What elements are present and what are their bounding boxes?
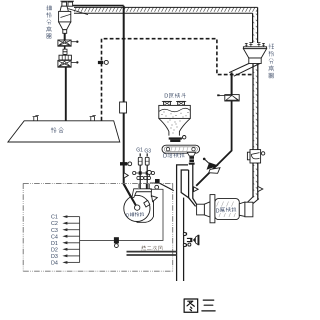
burner arrow D1 xyxy=(67,242,80,244)
svg-text:G3: G3 xyxy=(144,148,151,154)
actuator circle below junction xyxy=(155,185,159,189)
svg-text:C2: C2 xyxy=(51,221,58,227)
svg-text:D: D xyxy=(164,94,168,100)
svg-text:D4: D4 xyxy=(51,261,58,267)
fan hub xyxy=(135,205,140,210)
pipe: cyclone outlet down-pipe to exhauster fan xyxy=(124,6,137,208)
burner arrow D4 xyxy=(67,261,80,263)
burner arrow D3 xyxy=(67,255,80,257)
G3 valve assembly xyxy=(145,153,149,188)
burner arrow C4 xyxy=(67,235,80,237)
svg-text:D3: D3 xyxy=(51,254,58,260)
wire: sampling line loop xyxy=(80,189,163,240)
junction damper black box xyxy=(150,182,155,184)
svg-text:D2: D2 xyxy=(51,247,58,253)
bunker top fitting 2 xyxy=(90,115,96,120)
flag fitting on exhauster pipe xyxy=(124,173,129,179)
pipe: to powder bunker xyxy=(65,67,67,121)
flag fitting on riser xyxy=(258,186,263,191)
mill texture xyxy=(217,202,236,218)
cyclone separator body xyxy=(59,1,88,33)
pipe: return leg lower xyxy=(196,101,231,186)
svg-text:D: D xyxy=(163,154,167,160)
label: coarse powder separator (vertical) xyxy=(269,44,274,49)
G1 valve assembly xyxy=(138,153,142,188)
valve (half solid) on diagonal return xyxy=(203,158,220,174)
chute: double-walled downcomer to mill xyxy=(177,163,197,282)
raw coal hopper D xyxy=(159,101,191,135)
burner nozzle branch on duct xyxy=(183,233,198,247)
duct: dashed bypass duct (bunker to separator) xyxy=(102,39,254,121)
svg-text:D: D xyxy=(216,208,220,214)
fan shaft into hub xyxy=(124,184,138,208)
wire: cyclone outlet line to exhauster down-pipe xyxy=(68,5,124,7)
valve on return leg xyxy=(217,94,239,101)
sensor circle with stem xyxy=(147,170,151,174)
svg-text:G1: G1 xyxy=(136,147,143,153)
label: fine powder separator (vertical) xyxy=(46,5,51,10)
svg-text:C1: C1 xyxy=(51,215,58,221)
coarse powder separator xyxy=(243,43,266,64)
svg-text:C4: C4 xyxy=(51,234,58,240)
wire: junction to chute (diagonal) xyxy=(160,183,174,190)
coal feeder D (belt) xyxy=(162,145,200,153)
fan inlet box xyxy=(132,189,152,198)
furnace boundary (dash-dot enclosure) xyxy=(23,182,173,184)
hopper outlet gate xyxy=(169,137,182,139)
duct: hatched vertical duct down to coarse separator xyxy=(253,13,258,43)
flap device on riser xyxy=(247,150,264,163)
damper on exhauster pipe xyxy=(120,162,127,165)
svg-text:C3: C3 xyxy=(51,228,58,234)
damper on dashed duct xyxy=(98,61,103,64)
burner arrow D2 xyxy=(67,248,80,250)
burner branch collector line xyxy=(79,217,81,263)
duct: hatched horizontal duct (top) xyxy=(74,7,258,13)
fitting between valves xyxy=(64,46,66,55)
hopper coal stipple xyxy=(162,112,189,134)
fan outlet notch triangle xyxy=(152,196,158,202)
chute: separator outlet to mill inlet pipe xyxy=(229,64,260,77)
burner arrow C3 xyxy=(67,229,80,231)
damper on sampling line xyxy=(114,237,119,243)
powder bunker (trapezoid) xyxy=(8,121,120,142)
burner arrow C1 xyxy=(67,216,80,218)
bunker top fitting 1 xyxy=(33,115,39,120)
feeder outlet funnel and gate xyxy=(187,152,195,156)
label: Figure 3 xyxy=(184,299,198,312)
port circles under G valves xyxy=(137,176,151,179)
exhauster fan housing xyxy=(134,192,154,223)
pipe: cyclone underflow xyxy=(64,33,66,40)
label: powder bunker xyxy=(51,127,56,132)
fan outlet risers xyxy=(138,184,140,189)
flange row across G pipes xyxy=(135,172,153,174)
svg-text:D1: D1 xyxy=(51,241,58,247)
sleeve on exhauster pipe xyxy=(120,102,127,113)
burner arrow C2 xyxy=(67,222,80,224)
fan scroll circle xyxy=(124,195,150,221)
valve: flap valve 1 under cyclone xyxy=(58,40,79,46)
pipe: separator return leg xyxy=(231,72,233,94)
rotary feeder flange assembly xyxy=(59,55,71,60)
ball mill D assembly xyxy=(197,195,259,223)
hot secondary air duct lines xyxy=(127,251,177,253)
pipe: riser below separator (hatched) xyxy=(253,64,258,198)
valve: flap valve 2 xyxy=(58,60,79,67)
label: hot secondary air xyxy=(141,246,145,251)
fan inner diamond xyxy=(143,200,151,208)
flag on chute wall xyxy=(194,187,199,192)
